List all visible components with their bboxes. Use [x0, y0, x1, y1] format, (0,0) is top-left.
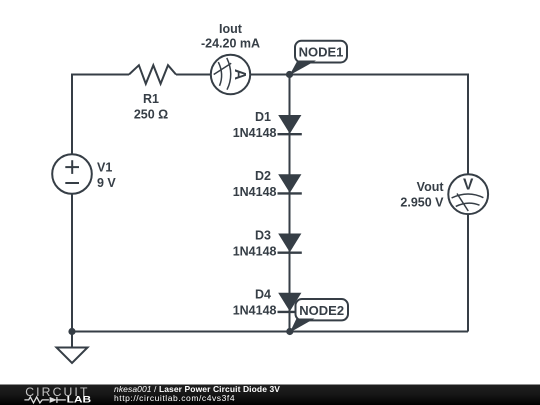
resistor R1 — [129, 65, 176, 121]
node label NODE2 — [290, 299, 348, 333]
svg-text:R1: R1 — [143, 92, 159, 106]
node label NODE1 — [290, 41, 348, 76]
svg-text:D1: D1 — [255, 110, 271, 124]
svg-text:A: A — [231, 69, 248, 80]
diode D1 — [233, 110, 302, 140]
node dot NODE2 junction — [286, 328, 293, 335]
wire top-left from resistor to left corner down to V1 — [72, 75, 129, 332]
svg-text:NODE1: NODE1 — [299, 45, 344, 60]
svg-text:250 Ω: 250 Ω — [134, 107, 168, 121]
CircuitLab logo schematic squiggle — [24, 397, 65, 403]
wire diode column — [289, 75, 291, 332]
svg-text:Vout: Vout — [417, 180, 445, 194]
ground — [57, 332, 88, 364]
svg-text:NODE2: NODE2 — [299, 303, 344, 318]
svg-text:Iout: Iout — [219, 22, 243, 36]
svg-text:1N4148: 1N4148 — [233, 244, 277, 258]
svg-text:V: V — [463, 177, 474, 194]
svg-text:-24.20 mA: -24.20 mA — [201, 37, 260, 51]
voltage source V1 — [52, 154, 116, 194]
svg-text:http://circuitlab.com/c4vs3f4: http://circuitlab.com/c4vs3f4 — [114, 393, 235, 403]
svg-text:D4: D4 — [255, 288, 271, 302]
diode D2 — [233, 169, 302, 199]
diode D3 — [233, 229, 302, 259]
svg-text:1N4148: 1N4148 — [233, 126, 277, 140]
svg-text:2.950 V: 2.950 V — [400, 196, 444, 210]
voltmeter Vout — [400, 174, 488, 214]
node dot ground junction — [68, 328, 75, 335]
wire ammeter to top-right corner down through voltmeter to bottom-right corner — [210, 75, 468, 332]
svg-text:V1: V1 — [97, 161, 112, 175]
svg-text:1N4148: 1N4148 — [233, 304, 277, 318]
node dot NODE1 junction — [286, 71, 293, 78]
svg-text:LAB: LAB — [67, 395, 92, 405]
svg-text:D3: D3 — [255, 229, 271, 243]
svg-text:9 V: 9 V — [97, 176, 116, 190]
wire bottom rail — [72, 331, 468, 333]
footer bar — [0, 385, 540, 405]
diode D4 — [233, 288, 302, 318]
svg-text:D2: D2 — [255, 169, 271, 183]
ammeter Iout — [201, 22, 260, 94]
wire resistor to ammeter — [176, 74, 212, 76]
svg-text:1N4148: 1N4148 — [233, 185, 277, 199]
